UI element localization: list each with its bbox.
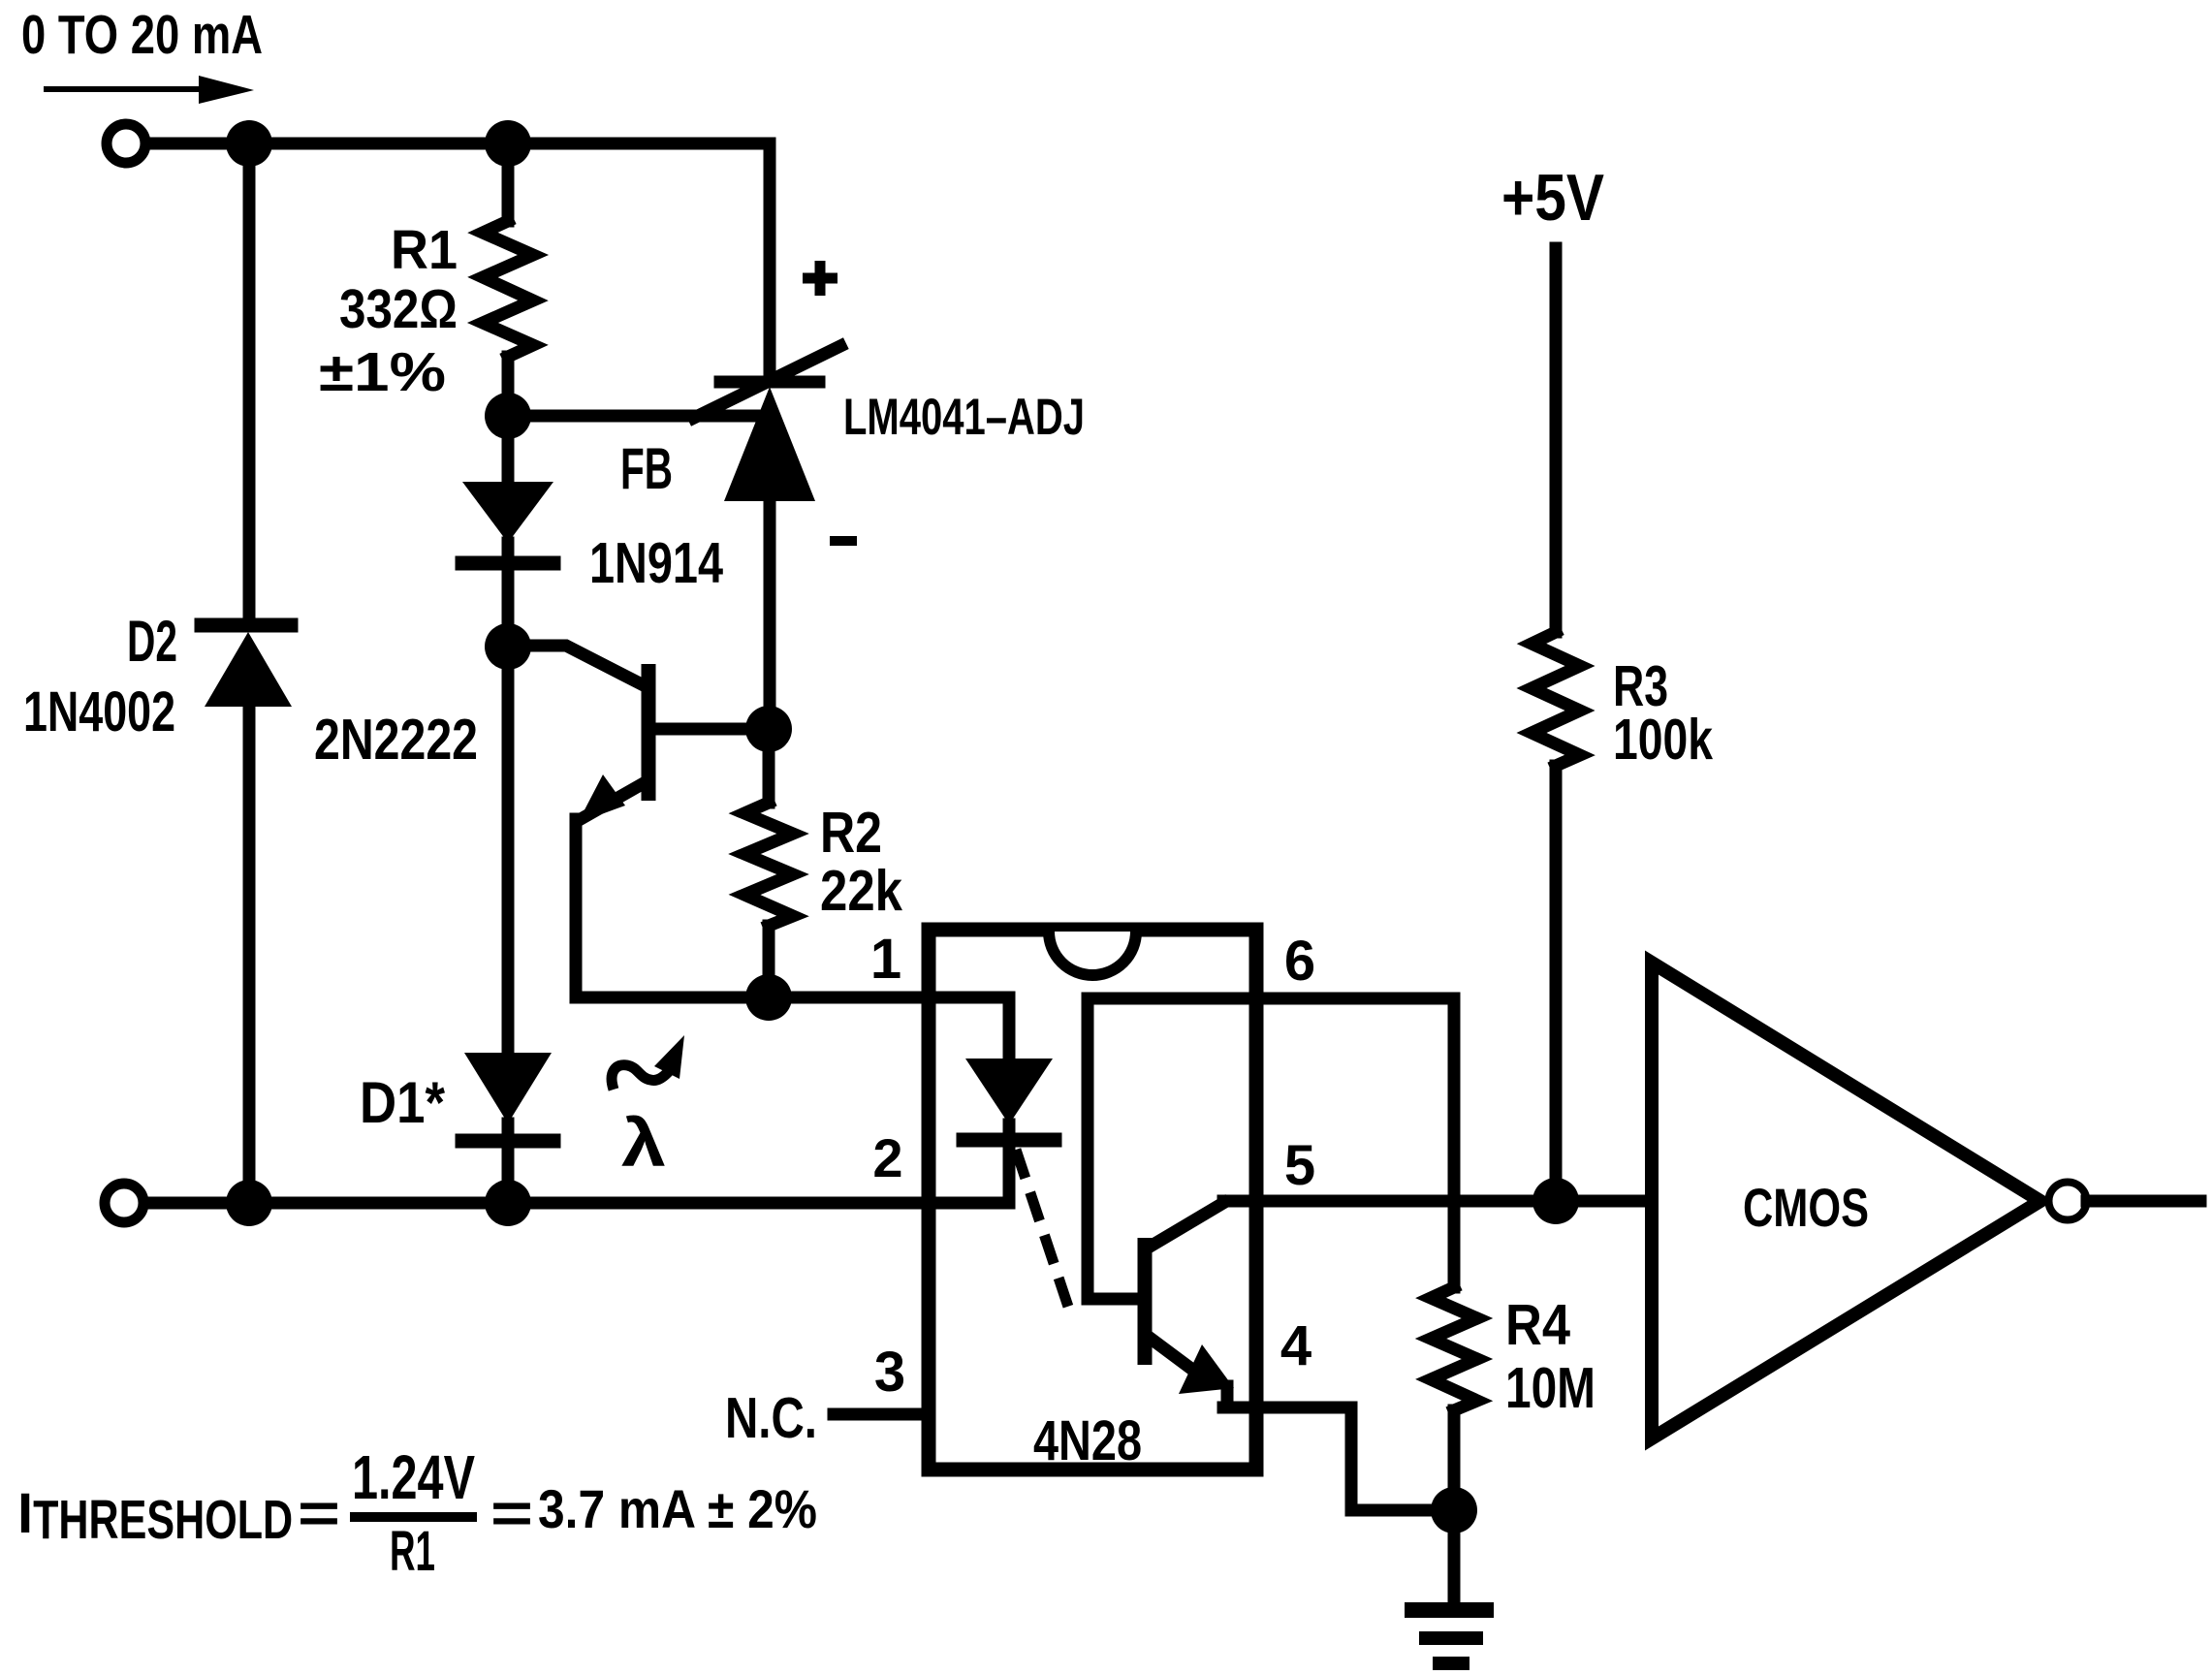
node junction top R1 [485,120,531,167]
diode D1* LED sensing [462,647,553,1203]
phototransistor inside 4N28 [1145,1203,1234,1394]
wire bottom rail [145,1197,1009,1210]
svg-text:ITHRESHOLD: ITHRESHOLD [17,1482,293,1551]
svg-text:±1%: ±1% [319,341,446,403]
svg-text:D2: D2 [127,609,177,674]
plus polarity mark [803,261,837,296]
wire output [2087,1195,2200,1208]
svg-text:2: 2 [872,1127,902,1188]
svg-text:CMOS: CMOS [1743,1177,1869,1238]
svg-text:4N28: 4N28 [1033,1409,1142,1472]
optocoupler U1 4N28 package [929,930,1256,1470]
svg-text:1N4002: 1N4002 [23,680,175,743]
svg-text:R1: R1 [390,1520,435,1583]
light coupling dashed line [1016,1150,1068,1307]
svg-text:0 TO 20 mA: 0 TO 20 mA [21,4,263,66]
svg-text:4: 4 [1280,1314,1311,1377]
resistor R3 100k [1532,248,1580,1201]
svg-text:1.24V: 1.24V [352,1442,475,1512]
node junction R2 bottom / pin1 [745,974,792,1021]
svg-text:λ: λ [621,1105,666,1181]
diode D2 1N4002 [202,625,292,737]
N.C. stub wire pin 3 [834,1408,929,1421]
transistor Q1 2N2222 [508,646,769,992]
svg-text:R4: R4 [1505,1293,1570,1357]
LED inside 4N28 [964,997,1055,1203]
svg-text:D1*: D1* [360,1070,446,1135]
wire D2 branch lower [243,707,256,1203]
node junction R4 bottom [1431,1487,1477,1533]
svg-text:1N914: 1N914 [589,531,723,595]
svg-text:10M: 10M [1505,1356,1596,1420]
input terminal top-left [107,124,145,163]
svg-text:R2: R2 [820,801,882,865]
wire D2 branch upper [243,143,256,620]
ground symbol [1405,1510,1494,1663]
node junction top-left [226,120,272,167]
svg-text:R1: R1 [391,219,458,281]
node junction D1 bottom [485,1180,531,1226]
svg-text:LM4041–ADJ: LM4041–ADJ [843,389,1085,446]
wire top rail [147,138,770,150]
resistor R1 332 ohm [502,143,515,221]
svg-text:N.C.: N.C. [725,1386,817,1450]
svg-text:2N2222: 2N2222 [314,708,478,772]
wire base routing to pin 6 [1088,998,1454,1299]
svg-text:=: = [298,1482,340,1545]
svg-text:3.7 mA ± 2%: 3.7 mA ± 2% [538,1478,817,1539]
svg-text:+5V: +5V [1501,161,1604,235]
wire pin 5 to CMOS input [1223,1195,1652,1208]
wire pin 4 to ground [1221,1386,1234,1407]
svg-text:22k: 22k [820,859,902,923]
svg-text:1: 1 [870,928,901,991]
node junction R3/pin5 [1533,1178,1579,1224]
inverter bubble [2049,1183,2087,1220]
lambda squiggle arrow [612,1035,684,1090]
node junction collector/R2 [745,706,792,752]
current direction arrow [44,76,254,104]
diode 1N914 [462,416,553,647]
shunt reference LM4041-ADJ [694,143,840,729]
output terminal bottom-left [105,1184,143,1222]
threshold formula [17,1442,817,1583]
svg-text:5: 5 [1284,1134,1315,1197]
resistor R4 10M [1431,998,1477,1510]
svg-text:=: = [490,1482,533,1545]
package notch [1049,932,1136,975]
svg-text:6: 6 [1284,930,1315,993]
CMOS inverter gate [1652,963,2040,1438]
svg-text:FB: FB [620,436,673,501]
svg-text:3: 3 [874,1341,905,1404]
wire emitter to pin 1 [576,992,1009,1004]
svg-text:100k: 100k [1613,708,1713,772]
minus polarity mark [830,536,857,546]
node junction bottom-left [226,1180,272,1226]
node junction base [485,623,531,670]
node junction R1 bottom / FB [485,393,531,439]
svg-text:332Ω: 332Ω [339,278,458,340]
wire FB feedback [508,410,759,423]
resistor R2 22k [744,729,793,997]
